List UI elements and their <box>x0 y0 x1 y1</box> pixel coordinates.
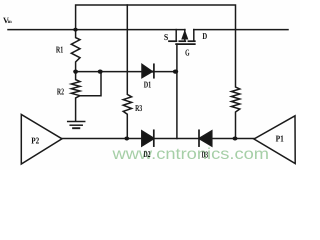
transistor Q1 body arrow <box>182 32 187 39</box>
ground <box>68 121 85 123</box>
diode D3 <box>198 130 200 146</box>
resistor R1 <box>71 30 80 72</box>
junction dot node A <box>73 70 78 74</box>
svg-text:G: G <box>185 48 190 58</box>
svg-text:R2: R2 <box>57 86 65 96</box>
junction dot Vin/R1 <box>73 28 77 32</box>
svg-text:D3: D3 <box>202 149 209 159</box>
wire D1 cathode to gate node <box>154 71 177 73</box>
svg-text:D1: D1 <box>144 79 152 89</box>
svg-text:www.cntronics.com: www.cntronics.com <box>111 146 269 163</box>
resistor R4 unlabeled right <box>231 30 239 139</box>
junction dot gate/D1 <box>173 70 178 74</box>
wire Vin rail left segment <box>8 29 185 31</box>
svg-text:D2: D2 <box>144 149 151 159</box>
svg-text:P2: P2 <box>31 135 39 145</box>
svg-text:P1: P1 <box>276 134 285 144</box>
svg-text:R3: R3 <box>135 103 142 113</box>
svg-text:S: S <box>164 32 168 42</box>
diode D2 <box>142 131 153 146</box>
wire node A to D1 <box>76 71 142 73</box>
transistor Q1 source bar <box>169 40 176 42</box>
svg-text:D: D <box>202 31 207 41</box>
buffer P1 <box>254 116 295 164</box>
transistor Q1 drain lead <box>193 30 195 42</box>
wire D3 to P1 <box>212 138 254 140</box>
wire R2 tap <box>80 72 101 96</box>
transistor Q1 drain bar <box>188 40 194 42</box>
wire top rail <box>76 5 236 30</box>
buffer P2 <box>21 115 62 165</box>
transistor Q1 body stem <box>184 30 186 42</box>
transistor Q1 gate bar <box>176 43 195 45</box>
junction dot R3/bottom <box>124 137 129 141</box>
transistor Q1 source lead <box>175 30 177 42</box>
wire gate node vertical <box>176 44 178 138</box>
svg-text:in: in <box>8 19 12 25</box>
transistor Q1 body bar <box>179 40 185 42</box>
junction dot R4/bottom <box>233 137 238 141</box>
resistor R3 <box>123 5 131 139</box>
wire D2 to D3 <box>154 138 199 140</box>
diode D1 <box>142 64 153 77</box>
junction dot tap <box>98 70 103 74</box>
wire bottom rail P2 to D2 <box>62 138 142 140</box>
resistor R2 <box>71 72 80 121</box>
svg-text:R1: R1 <box>56 44 64 54</box>
wire Vin rail right segment <box>194 29 288 31</box>
